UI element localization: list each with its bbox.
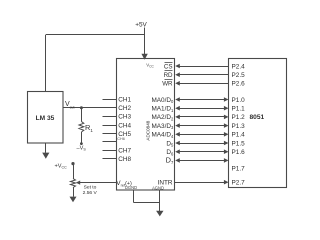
svg-text:AGND: AGND [152,186,164,191]
svg-text:CH8: CH8 [118,156,131,163]
svg-text:CH1: CH1 [118,96,131,103]
svg-text:MA3/D: MA3/D [151,123,171,130]
svg-text:P1.3: P1.3 [232,123,246,130]
svg-text:P1.2: P1.2 [232,114,246,121]
svg-text:CH2: CH2 [118,105,131,112]
svg-text:LM 35: LM 35 [36,115,55,122]
svg-text:CH3: CH3 [118,114,131,121]
svg-text:DGND: DGND [125,185,137,190]
svg-text:WR: WR [162,81,173,88]
svg-text:P1.0: P1.0 [232,97,246,104]
svg-text:MA2/D: MA2/D [151,114,171,121]
svg-text:P1.7: P1.7 [232,166,246,173]
svg-text:CH6: CH6 [117,137,125,141]
svg-text:P1.4: P1.4 [232,132,246,139]
svg-text:VCC: VCC [146,63,154,69]
svg-text:MA4/D: MA4/D [151,132,171,139]
svg-text:P2.5: P2.5 [232,72,246,79]
svg-text:CH7: CH7 [118,147,131,154]
svg-text:P1.6: P1.6 [232,149,246,156]
svg-text:MA1/D: MA1/D [151,106,171,113]
svg-text:P2.7: P2.7 [232,180,246,187]
svg-text:RD: RD [164,72,173,79]
svg-text:P1.1: P1.1 [232,106,246,113]
svg-text:P2.4: P2.4 [232,63,246,70]
svg-text:P2.6: P2.6 [232,81,246,88]
svg-text:P1.5: P1.5 [232,140,246,147]
svg-text:MA0/D: MA0/D [151,97,171,104]
svg-text:Set to: Set to [84,185,97,191]
svg-text:ADC0848: ADC0848 [146,120,151,140]
svg-text:+5V: +5V [135,21,147,28]
svg-text:CS: CS [164,63,173,70]
svg-text:CH4: CH4 [118,122,131,129]
svg-text:2.56 V: 2.56 V [83,190,98,196]
svg-text:8051: 8051 [250,114,265,121]
